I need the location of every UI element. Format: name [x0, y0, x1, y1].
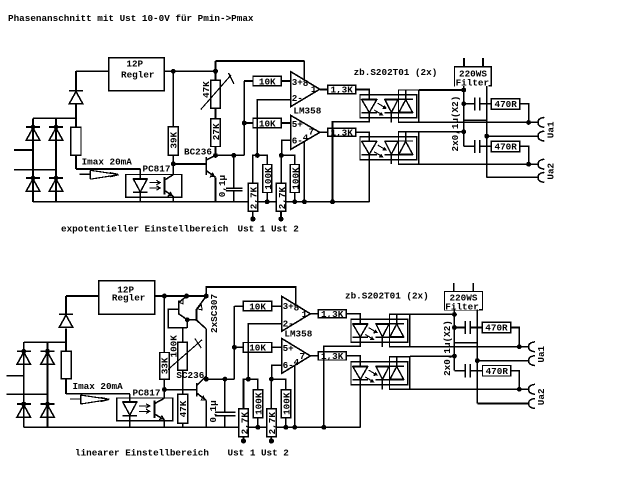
terminal dot Ust 1 bottom	[241, 438, 246, 443]
svg-text:2,7K: 2,7K	[249, 186, 260, 209]
potentiometer P1 47K	[211, 80, 221, 108]
wire Q4 emitter to rail2	[205, 401, 207, 428]
svg-text:BC236: BC236	[184, 146, 212, 157]
label Filter top	[455, 77, 489, 88]
wire 10K-C to pin3	[272, 305, 282, 307]
current arrow top	[80, 170, 119, 179]
svg-text:470R: 470R	[495, 142, 518, 153]
junction dot 100K-D rail2	[283, 425, 288, 430]
junction dot filter2 MT2-4	[452, 354, 457, 359]
svg-text:100K: 100K	[254, 392, 265, 415]
wire D10 anode to bridge2 rail and resistor	[65, 328, 67, 351]
resistor R10 1,3K	[328, 85, 356, 93]
junction dot reg2 output / Ta emitter	[184, 294, 189, 299]
wire Qb collector vertical	[205, 329, 207, 379]
wire regulator output	[164, 70, 216, 72]
wire R14 to PC817-2 LED	[66, 393, 130, 395]
svg-text:470R: 470R	[495, 99, 518, 110]
wire SSR1 LED cathode to rail	[333, 118, 370, 202]
wire opamp1 pin2 line	[257, 100, 290, 155]
junction dot 100K-A rail	[265, 199, 270, 204]
wire 2,7K-C terminal	[243, 437, 245, 440]
PC817-2 phototransistor	[155, 392, 165, 428]
svg-text:Regler: Regler	[121, 69, 154, 80]
wire 10K-B to pin5	[281, 122, 290, 124]
diode D6 bridge2 top-left	[17, 351, 31, 364]
resistor R14 (dropper bottom)	[61, 351, 71, 379]
capacitor C2 X2	[464, 97, 492, 110]
AC input wire L1 top	[14, 149, 33, 151]
wire D5 anode to bridge rail and resistor	[75, 104, 77, 127]
resistor R16 47K bottom	[178, 394, 188, 423]
svg-text:Ua1: Ua1	[546, 121, 557, 138]
wire 10K-B left jog	[244, 122, 253, 124]
svg-text:2-: 2-	[292, 93, 303, 104]
junction dot collector node bottom	[204, 377, 209, 382]
node dot D1 cathode	[31, 125, 36, 130]
junction dot 100K-C rail2	[255, 425, 260, 430]
wire bridge top rail	[33, 117, 76, 119]
wire bridge column 1	[32, 118, 34, 201]
wire Ust1 divider left jog bottom	[244, 379, 249, 409]
wire SSR2 MT2 line to filter vertical	[419, 131, 464, 133]
junction dot 100K-B rail	[292, 199, 297, 204]
wire 100K-D to rail2	[285, 418, 287, 428]
wire regulator2 input	[66, 295, 99, 297]
svg-text:1: 1	[302, 309, 308, 320]
transistor Q2 SC307 a	[168, 296, 196, 342]
svg-text:100K: 100K	[263, 167, 274, 190]
filter F1 stub right	[482, 58, 484, 67]
wire SSR4 MT2 line to filter2 vertical	[410, 355, 455, 357]
wire conn2 line	[487, 135, 538, 137]
wire conn4 line	[487, 176, 538, 178]
junction dot Ust2 divider	[279, 153, 284, 158]
AC input wire N1 bottom	[7, 393, 48, 395]
wire V+ top line	[216, 60, 305, 62]
svg-text:1,3K: 1,3K	[331, 128, 354, 139]
capacitor C1 0,1u	[226, 155, 243, 201]
svg-text:LM358: LM358	[284, 329, 312, 340]
resistor R21 2,7K Ust2 bottom	[267, 409, 276, 437]
filter F2 220WS box bottom	[445, 292, 483, 310]
svg-text:Imax 20mA: Imax 20mA	[73, 381, 124, 392]
wire bridge2 column 1	[23, 342, 25, 427]
wire 39K bottom lead	[172, 155, 174, 164]
wire SSR4 MT1 line to Ua2 bottom	[410, 388, 529, 390]
junction dot Qa collector	[185, 317, 190, 322]
PC817-2 light arrows	[139, 404, 150, 414]
wire 39K top lead	[172, 71, 174, 127]
junction dot reg2 output / 33K	[162, 294, 167, 299]
op-amp U6B LM358 bottom	[282, 338, 311, 373]
svg-text:6-: 6-	[283, 360, 294, 371]
junction dot SSR cathodes rail	[330, 199, 335, 204]
svg-text:8: 8	[294, 302, 300, 313]
resistor R1 (dropper)	[71, 127, 81, 155]
wire 10K-D to pin5	[272, 346, 282, 348]
wire PC817-2 LED anode lead	[129, 394, 131, 402]
svg-text:expotentieller Einstellbereich: expotentieller Einstellbereich	[61, 224, 229, 235]
wire opamp4 pin6 line	[272, 365, 282, 379]
wire SSR1 MT2 line to filter	[419, 89, 464, 91]
svg-text:Filter: Filter	[456, 77, 489, 88]
wire 10K common vertical	[243, 81, 245, 155]
wire phototransistor collector up to node B	[172, 166, 174, 175]
resistor R25 470R bottom	[482, 322, 510, 333]
wire V+ top line bottom circuit	[206, 287, 296, 305]
junction dot conn2 branch bottom	[475, 358, 480, 363]
wire SSR3 MT2 line to filter2	[410, 313, 455, 315]
op-amp U3A LM358	[291, 72, 320, 107]
wire D10 cathode up	[65, 296, 67, 314]
regulator U1 12P Regler box	[109, 58, 165, 91]
junction dot filter MT2-1	[461, 88, 466, 93]
svg-text:7: 7	[309, 127, 315, 138]
svg-text:zb.S202T01 (2x): zb.S202T01 (2x)	[345, 291, 429, 302]
svg-text:3+: 3+	[283, 301, 295, 312]
wire pot to 27K	[215, 108, 217, 118]
wire SSR2 MT1 line to Ua2	[419, 163, 538, 165]
wire Ust2 divider to 2,7K	[280, 155, 282, 183]
wire base link to Qb	[187, 319, 196, 321]
junction dot node B2	[162, 387, 167, 392]
wire phototransistor emitter to rail	[172, 196, 174, 202]
wire PC817 LED cathode to rail	[139, 192, 141, 201]
wire 2,7K-D terminal	[270, 437, 272, 440]
wire pot top lead through junction	[215, 61, 217, 80]
node wire base line bottom	[164, 389, 197, 391]
junction dot filter2 cap3	[452, 325, 457, 330]
wire opamp4 output	[310, 355, 318, 357]
svg-text:Ua2: Ua2	[536, 388, 547, 405]
svg-text:100K: 100K	[168, 335, 179, 358]
optocoupler U5 PC817 box bottom	[117, 398, 173, 421]
svg-text:10K: 10K	[249, 343, 266, 354]
wire opamp4 pin4 to rail2	[294, 366, 296, 428]
AC input wire N1 top	[14, 169, 56, 171]
wire SSR2 LED cathode to rail	[368, 160, 370, 202]
wire 1,3K-A to SSR1 LED	[356, 90, 370, 95]
svg-text:PC817: PC817	[143, 163, 171, 174]
svg-text:470R: 470R	[485, 323, 508, 334]
regulator U4 12P Regler box bottom	[99, 281, 155, 315]
wire R1 bottom lead	[75, 155, 77, 169]
wire 10K common vertical bottom	[233, 306, 235, 379]
resistor R11 1,3K	[328, 128, 356, 136]
svg-text:100K: 100K	[282, 392, 293, 415]
connector Ua2 b bottom	[529, 399, 535, 409]
svg-text:2,7K: 2,7K	[239, 412, 250, 435]
connector Ua1 a bottom	[529, 342, 535, 352]
capacitor C3 X2	[464, 140, 492, 153]
svg-text:27K: 27K	[211, 123, 222, 140]
svg-text:linearer Einstellbereich: linearer Einstellbereich	[75, 448, 209, 459]
filter F2 stub right	[472, 283, 474, 292]
wire PC817 LED anode lead	[139, 169, 141, 179]
svg-text:47K: 47K	[178, 400, 189, 417]
svg-text:Filter: Filter	[445, 301, 478, 312]
svg-text:470R: 470R	[486, 366, 509, 377]
diode D8 bridge2 bottom-left	[17, 404, 31, 417]
svg-text:Ua2: Ua2	[546, 162, 557, 179]
svg-text:33K: 33K	[160, 357, 171, 374]
wire Ust1 divider left jog to 2,7K	[253, 155, 257, 183]
diode D10 supply bottom	[59, 314, 73, 327]
wire 33K bottom lead	[163, 379, 165, 389]
wire R14 bottom lead	[65, 379, 67, 394]
wire 10K-A to pin3	[281, 80, 290, 82]
terminal dot Ust 1 top	[250, 216, 255, 221]
pot P2 arrow	[168, 340, 202, 370]
pot P1 arrow	[201, 75, 231, 110]
svg-text:Regler: Regler	[112, 293, 145, 304]
resistor R5 10K opamp2	[253, 118, 281, 128]
svg-text:2x0,1µ(X2): 2x0,1µ(X2)	[450, 96, 461, 152]
connector Ua2 a	[538, 159, 544, 169]
junction dot pin4 rail	[302, 199, 307, 204]
wire X2 link	[464, 119, 487, 121]
solid state relay SSR4 S202T01	[351, 356, 410, 389]
svg-text:1: 1	[311, 84, 317, 95]
wire 1,3K-D to SSR4 LED	[346, 356, 360, 362]
capacitor C6 X2 bottom	[454, 364, 482, 377]
ground rail bottom circuit	[24, 426, 361, 428]
resistor R24 1,3K bottom	[318, 352, 346, 360]
wire conn vertical	[486, 86, 488, 177]
wire conn4 line bottom	[477, 403, 528, 405]
wire R1 to PC817 LED	[76, 168, 140, 170]
junction dot cap C4 top	[222, 377, 227, 382]
wire 100K-C to rail2	[257, 418, 259, 428]
svg-text:47K: 47K	[201, 81, 212, 98]
svg-text:6-: 6-	[292, 136, 303, 147]
wire opamp1 pin8 lead	[303, 61, 305, 80]
current arrow bottom	[70, 395, 109, 404]
solid state relay SSR2 S202T01	[360, 131, 419, 164]
svg-text:5+: 5+	[292, 119, 304, 130]
junction dot Ua2	[526, 162, 531, 167]
filter F2 stub left	[453, 283, 455, 292]
node dot D6 cathode	[21, 349, 26, 354]
node dot D3 cathode	[31, 176, 36, 181]
resistor R4 10K opamp1	[253, 76, 281, 86]
resistor R2 39K	[168, 127, 178, 156]
node dot D7 cathode	[45, 349, 50, 354]
svg-text:0,1µ: 0,1µ	[208, 400, 219, 422]
svg-text:4: 4	[303, 133, 309, 144]
resistor R22 100K opamp4	[281, 390, 290, 418]
wire Q4 collector node line bottom	[206, 378, 234, 380]
junction dot reg2 output / Tb emitter	[204, 294, 209, 299]
svg-text:10K: 10K	[249, 301, 266, 312]
wire bridge2 top rail	[24, 341, 66, 343]
svg-text:2,7K: 2,7K	[267, 412, 278, 435]
wire SSR3 LED cathode to rail2	[324, 342, 360, 427]
junction dot collector node	[213, 153, 218, 158]
wire 47K to rail2	[182, 423, 184, 427]
wire 470R-D output	[511, 371, 519, 390]
svg-text:0,1µ: 0,1µ	[217, 175, 228, 197]
junction dot conn2 branch	[484, 134, 489, 139]
terminal dot Ust 2 bottom	[269, 438, 274, 443]
junction dot 10K-D tap	[232, 345, 237, 350]
wire conn vertical bottom	[476, 310, 478, 404]
wire SSR1 MT1 line to Ua1	[419, 121, 538, 123]
wire Q1 collector node line	[216, 154, 245, 156]
svg-text:2xSC307: 2xSC307	[209, 294, 220, 333]
wire 470R-A output	[520, 104, 529, 123]
solid state relay SSR3 S202T01	[351, 314, 410, 347]
label Filter bottom	[445, 301, 479, 312]
wire Qa collector node vertical	[186, 320, 188, 328]
resistor R26 470R bottom	[483, 366, 511, 377]
junction dot reg output / 47K pot	[213, 69, 218, 74]
wire 10K-A left jog	[244, 80, 253, 82]
wire 1,3K-C to SSR3 LED	[346, 314, 360, 319]
resistor R23 1,3K bottom	[318, 310, 346, 318]
diode D2 bridge1 top-right	[49, 127, 63, 140]
svg-text:Ust 1 Ust 2: Ust 1 Ust 2	[238, 224, 300, 235]
wire 33K top lead	[163, 296, 165, 353]
optocoupler U2 PC817 box	[126, 175, 182, 198]
diode D7 bridge2 top-right	[41, 351, 55, 364]
svg-text:5+: 5+	[283, 343, 295, 354]
resistor R9 100K opamp2	[290, 165, 299, 193]
svg-text:7: 7	[300, 351, 306, 362]
svg-text:39K: 39K	[169, 131, 180, 148]
connector Ua2 a bottom	[529, 384, 535, 394]
diode D9 bridge2 bottom-right	[41, 404, 55, 417]
connector Ua1 b bottom	[529, 356, 535, 366]
wire Qa base loop	[168, 309, 187, 328]
junction dot Ust1 divider bottom	[246, 377, 251, 382]
junction dot reg output / 39K	[171, 69, 176, 74]
wire Ust1 divider right jog to 100K	[257, 155, 267, 164]
wire 2,7K-A terminal	[252, 211, 254, 217]
wire phototransistor2 collector up to node B2	[163, 392, 165, 399]
wire 10K-C left jog	[234, 305, 243, 307]
diode D5 supply top	[69, 91, 83, 104]
wire 470R-B output	[520, 146, 529, 164]
wire 100K-B to rail	[294, 193, 296, 202]
wire filter vertical	[463, 86, 465, 146]
resistor R19 2,7K Ust1 bottom	[239, 409, 248, 437]
svg-text:2,7K: 2,7K	[277, 186, 288, 209]
transistor Q3 SC307 b	[197, 296, 207, 379]
resistor R18 10K opamp4	[243, 343, 271, 353]
wire Ust1 divider right jog bottom	[248, 379, 258, 390]
svg-text:8: 8	[303, 78, 309, 89]
junction dot Ua1 bottom	[517, 344, 522, 349]
wire opamp2 pin6 line	[282, 140, 291, 155]
svg-text:zb.S202T01 (2x): zb.S202T01 (2x)	[354, 67, 438, 78]
svg-text:PC817: PC817	[133, 388, 161, 399]
transistor Q4 SC236	[197, 376, 206, 428]
node wire base line	[173, 163, 206, 165]
svg-text:SC236: SC236	[176, 370, 204, 381]
svg-text:10K: 10K	[259, 76, 276, 87]
wire 470R-C output	[511, 328, 520, 347]
wire 1,3K-B to SSR2 LED	[356, 132, 370, 136]
svg-text:LM358: LM358	[293, 106, 321, 117]
op-amp U6A LM358 bottom	[282, 296, 311, 331]
wire Q1 emitter to rail	[215, 177, 217, 202]
svg-text:Phasenanschnitt mit Ust 10-0V: Phasenanschnitt mit Ust 10-0V für Pmin->…	[8, 13, 254, 24]
wire pot2 top lead	[182, 328, 184, 343]
wire conn2 line bottom	[477, 360, 528, 362]
connector Ua1 b	[538, 131, 544, 141]
svg-text:Ust 1 Ust 2: Ust 1 Ust 2	[228, 448, 290, 459]
solid state relay SSR1 S202T01	[360, 90, 419, 123]
PC817 light arrows	[150, 180, 161, 190]
wire Ust2 divider right jog to 100K	[281, 155, 294, 164]
resistor R8 2,7K Ust2	[276, 183, 285, 211]
junction dot cap C1 top	[231, 153, 236, 158]
resistor R15 33K	[160, 353, 170, 380]
capacitor C4 0,1u bottom	[215, 379, 236, 427]
resistor R6 2,7K Ust1	[248, 183, 257, 211]
connector Ua2 b	[538, 172, 544, 182]
node dot D4 cathode	[54, 176, 59, 181]
filter F1 220WS box	[455, 67, 492, 86]
junction dot Ust2 divider bottom	[269, 377, 274, 382]
resistor R13 470R	[491, 141, 519, 152]
filter F1 stub left	[463, 58, 465, 67]
wire PC817-2 LED cathode to rail2	[129, 416, 131, 428]
diode D4 bridge1 bottom-right	[49, 178, 63, 191]
potentiometer P2 100K	[178, 342, 188, 370]
junction dot Ust1 divider	[255, 153, 260, 158]
PC817-2 LED	[123, 402, 137, 428]
resistor R17 10K opamp3	[243, 301, 271, 311]
svg-text:1,3K: 1,3K	[321, 309, 344, 320]
wire 100K-A to rail	[266, 193, 268, 202]
junction dot 10K-B tap	[242, 121, 247, 126]
svg-text:100K: 100K	[291, 167, 302, 190]
resistor R20 100K opamp3	[253, 390, 262, 418]
resistor R3 27K	[211, 119, 221, 147]
junction dot filter MT2-2	[461, 129, 466, 134]
junction dot Ua2 bottom	[517, 387, 522, 392]
svg-text:1,3K: 1,3K	[331, 85, 354, 96]
node dot D2 cathode	[54, 125, 59, 130]
wire bridge column 2	[55, 118, 57, 201]
wire SSR4 LED cathode to rail2	[359, 385, 361, 428]
junction dot Ua1	[526, 120, 531, 125]
wire Ust2 divider right jog bottom	[271, 379, 286, 390]
svg-text:Ua1: Ua1	[536, 345, 547, 362]
wire regulator2 output	[155, 295, 207, 297]
junction dot pin4 rail2	[292, 425, 297, 430]
wire opamp1 output	[320, 89, 328, 91]
wire regulator input	[76, 70, 109, 72]
wire bridge2 column 2	[47, 342, 49, 427]
node dot D8 cathode	[21, 402, 26, 407]
diode D3 bridge1 bottom-left	[26, 178, 40, 191]
transistor Q1 BC236	[206, 155, 215, 202]
wire X2 link bottom	[454, 342, 477, 344]
svg-text:2x0,1µ(X2): 2x0,1µ(X2)	[442, 320, 453, 376]
capacitor C5 X2 bottom	[454, 321, 482, 334]
resistor R7 100K opamp1	[263, 165, 272, 193]
junction dot filter2 MT2-3	[452, 312, 457, 317]
node dot D9 cathode	[45, 402, 50, 407]
resistor R12 470R	[491, 99, 519, 110]
diode D1 bridge1 top-left	[26, 127, 40, 140]
svg-text:10K: 10K	[259, 118, 276, 129]
wire filter2 vertical	[453, 310, 455, 371]
